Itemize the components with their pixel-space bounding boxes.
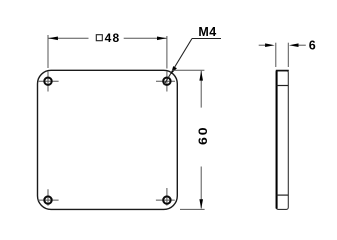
svg-text:6: 6 <box>309 39 316 53</box>
svg-text:60: 60 <box>196 126 210 145</box>
svg-text:48: 48 <box>105 31 121 45</box>
svg-text:M4: M4 <box>198 25 216 39</box>
